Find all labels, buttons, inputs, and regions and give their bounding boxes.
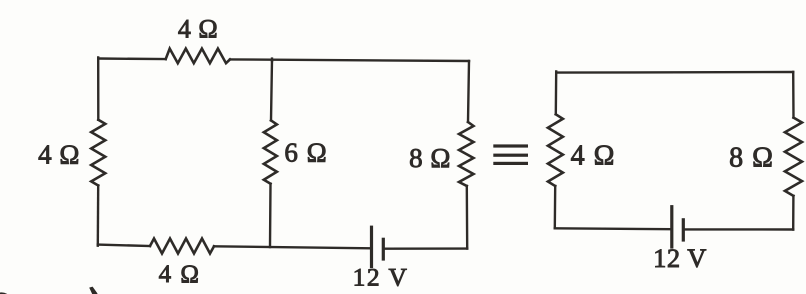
svg-text:12 V: 12 V bbox=[353, 263, 409, 292]
svg-text:6 Ω: 6 Ω bbox=[284, 138, 327, 168]
svg-text:8 Ω: 8 Ω bbox=[729, 143, 774, 174]
equivalence symbol (triple bar) bbox=[493, 144, 528, 165]
svg-text:4 Ω: 4 Ω bbox=[159, 261, 201, 288]
wire: right circuit right vertical lower bbox=[792, 196, 795, 230]
wire: right circuit bottom-left segment (to battery) bbox=[555, 227, 670, 230]
scan artifact: cut-off text at bottom-left edge bbox=[0, 292, 9, 294]
resistor R7 8-ohm (right circuit) bbox=[785, 118, 802, 196]
wire: left circuit left vertical lower bbox=[97, 186, 100, 246]
wire: left circuit left vertical upper bbox=[97, 58, 100, 120]
battery V2 12V short plate (negative) bbox=[682, 220, 685, 240]
scan artifact: small mark at bottom edge bbox=[89, 287, 97, 294]
svg-text:4 Ω: 4 Ω bbox=[571, 141, 616, 172]
svg-text:4 Ω: 4 Ω bbox=[178, 15, 218, 44]
wire: right circuit right vertical upper bbox=[792, 72, 795, 118]
wire: left circuit bottom-left segment bbox=[98, 245, 150, 246]
wire: right circuit left vertical upper bbox=[555, 72, 558, 115]
wire: left circuit bottom-right segment (battery to corner) bbox=[385, 247, 467, 249]
svg-text:4 Ω: 4 Ω bbox=[38, 140, 80, 170]
svg-text:8 Ω: 8 Ω bbox=[409, 143, 451, 173]
wire: right circuit left vertical lower bbox=[554, 186, 557, 228]
wire: left circuit right vertical lower bbox=[466, 186, 469, 249]
resistor R6 4-ohm (right circuit) bbox=[548, 114, 563, 186]
resistor R4 6-ohm (middle) bbox=[264, 120, 277, 183]
resistor R5 8-ohm (right) bbox=[459, 122, 474, 186]
battery V1 12V short plate (negative) bbox=[382, 239, 385, 259]
svg-text:12 V: 12 V bbox=[653, 243, 707, 273]
resistor R1 4-ohm (top) bbox=[166, 49, 230, 64]
node: middle branch top junction bbox=[271, 59, 273, 61]
wire: left circuit top-right segment (through node to corner) bbox=[230, 59, 469, 61]
wire: left circuit right vertical upper bbox=[468, 61, 469, 122]
wire: middle branch vertical lower bbox=[269, 184, 272, 247]
battery V2 12V long plate (positive) bbox=[670, 207, 673, 247]
resistor R3 4-ohm (bottom) bbox=[150, 239, 214, 254]
resistor R2 4-ohm (left) bbox=[91, 120, 105, 186]
wire: right circuit top horizontal bbox=[556, 71, 793, 74]
wire: left circuit bottom middle segment (to battery) bbox=[214, 246, 370, 248]
battery V1 12V long plate (positive) bbox=[370, 227, 373, 266]
wire: left circuit top-left segment bbox=[98, 57, 166, 60]
wire: right circuit bottom-right segment (battery to corner) bbox=[685, 228, 793, 231]
wire: middle branch vertical upper bbox=[271, 60, 272, 121]
